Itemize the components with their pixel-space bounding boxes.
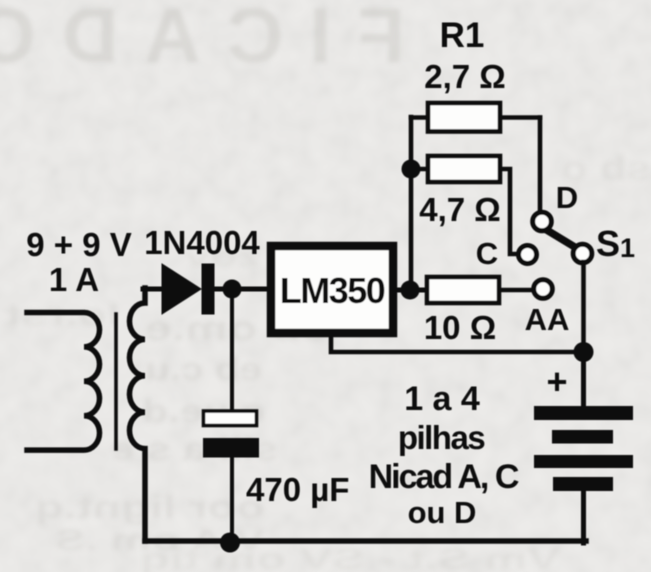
- wire LM350 output: [397, 288, 427, 293]
- wire bottom rail: [145, 538, 586, 544]
- node battery junction: [574, 342, 594, 362]
- switch S1 contact D: [533, 212, 552, 231]
- capacitor C1 470uF: [203, 411, 259, 458]
- transformer T1 secondary winding: [130, 288, 146, 541]
- transformer T1 core: [114, 314, 118, 449]
- resistor R1c 10 ohm: [427, 277, 534, 303]
- wire battery bottom: [581, 491, 586, 543]
- label pilhas: [398, 419, 485, 456]
- label 10 ohm: [424, 309, 496, 346]
- svg-text:R1: R1: [440, 16, 485, 55]
- svg-text:D: D: [556, 180, 578, 215]
- svg-text:9 + 9 V: 9 + 9 V: [26, 226, 132, 263]
- label +: [546, 361, 567, 402]
- svg-text:10 Ω: 10 Ω: [424, 309, 496, 346]
- svg-text:S: S: [596, 223, 620, 264]
- svg-text:ou D: ou D: [408, 495, 477, 530]
- wire capacitor bottom: [230, 457, 234, 541]
- label 4,7 ohm: [419, 191, 501, 228]
- wire ADJ pin: [331, 333, 584, 352]
- label 1N4004: [144, 224, 260, 261]
- node output junction: [401, 281, 420, 300]
- svg-text:2,7 Ω: 2,7 Ω: [424, 58, 506, 95]
- node bottom junction: [220, 533, 240, 553]
- label 470 uF: [246, 471, 349, 508]
- node junction diode/capacitor: [223, 280, 242, 299]
- regulator U1 LM350 box: [271, 246, 393, 333]
- label S1: [596, 223, 635, 264]
- switch S1 contact C: [519, 246, 537, 264]
- svg-text:lo.rst: lo.rst: [5, 299, 120, 332]
- label 1 a 4: [404, 380, 480, 418]
- diode D1 1N4004: [162, 264, 215, 315]
- svg-text:4,7 Ω: 4,7 Ω: [419, 191, 501, 228]
- wire 2.7 to D contact: [538, 118, 543, 214]
- switch S1 pole contact: [573, 244, 592, 263]
- switch S1 arm: [545, 229, 578, 249]
- svg-text:Vm S.t - SV om tiq: Vm S.t - SV om tiq: [140, 543, 560, 572]
- label 1 A: [49, 261, 99, 298]
- svg-text:AA: AA: [525, 302, 570, 337]
- label Nicad A, C: [369, 458, 519, 496]
- wire cathode to LM350 input: [214, 287, 268, 292]
- svg-text:1: 1: [620, 233, 635, 263]
- label ou D: [408, 495, 477, 530]
- svg-text:LM350: LM350: [280, 270, 385, 311]
- label AA: [525, 302, 570, 337]
- label 9 + 9 V: [26, 226, 132, 263]
- resistor R1b 4.7 ohm: [411, 156, 519, 254]
- svg-text:pilhas: pilhas: [398, 419, 485, 456]
- wire battery top: [581, 352, 586, 407]
- battery B1: [534, 406, 633, 491]
- wire anode: [143, 287, 164, 292]
- svg-text:1 a 4: 1 a 4: [404, 380, 480, 418]
- svg-text:1 A: 1 A: [49, 261, 99, 298]
- label 2,7 ohm: [424, 58, 506, 95]
- svg-text:eb c.u: eb c.u: [145, 351, 262, 387]
- wire riser to resistors: [409, 117, 414, 290]
- label R1: [440, 16, 485, 55]
- resistor R1a 2.7 ohm: [411, 103, 540, 132]
- svg-text:Nicad A, C: Nicad A, C: [369, 458, 519, 496]
- svg-text:+: +: [546, 361, 567, 402]
- wire capacitor top: [230, 294, 234, 410]
- wire pole down: [581, 262, 586, 352]
- node resistor junction: [402, 160, 421, 179]
- switch S1 contact AA: [534, 280, 553, 299]
- svg-text:C: C: [476, 236, 498, 271]
- svg-text:470 µF: 470 µF: [246, 471, 349, 508]
- label C: [476, 236, 498, 271]
- svg-text:1N4004: 1N4004: [144, 224, 260, 261]
- label D: [556, 180, 578, 215]
- transformer T1 primary winding: [27, 313, 99, 451]
